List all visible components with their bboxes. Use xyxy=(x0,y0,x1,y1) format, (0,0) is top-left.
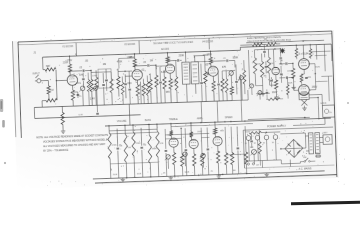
resistor R8 (vertical) xyxy=(109,72,114,105)
resistor R45 xyxy=(243,124,248,174)
interstage transformer T1 primary box xyxy=(182,62,190,84)
capacitor C24 (vertical) xyxy=(159,67,163,103)
V8 plate resistor R36 xyxy=(169,124,173,139)
B plus feed line xyxy=(247,99,310,119)
electrolytic capacitor C19 xyxy=(262,132,269,160)
label V1 ECC83 xyxy=(62,46,74,48)
title block subtext xyxy=(254,44,263,46)
label 0.05 C2 xyxy=(79,67,83,69)
extra junction dots upper xyxy=(69,51,212,74)
label .05 lower2 xyxy=(163,172,167,174)
HT dropper resistor R26 (horizontal) xyxy=(266,42,276,46)
resistor R53 lower xyxy=(258,130,262,166)
junction dot left bus xyxy=(62,117,63,118)
electrolytic capacitor C18 xyxy=(253,133,260,161)
svg-text:1.5K: 1.5K xyxy=(171,81,176,83)
junction dots out region xyxy=(280,44,313,78)
speed pot VR7 xyxy=(250,149,257,173)
svg-text:A.C. MAINS: A.C. MAINS xyxy=(299,167,312,170)
coupling capacitor C6 xyxy=(168,59,182,62)
ground symbol lower 3 xyxy=(217,174,222,178)
phase splitter triode V5 xyxy=(272,67,280,75)
wire phase mid xyxy=(256,92,270,94)
ground symbol below R30 xyxy=(61,131,65,134)
resistor R23 (vertical) xyxy=(260,53,265,89)
capacitor C21 (vertical) xyxy=(82,73,85,88)
label 470K phase xyxy=(256,64,262,66)
grid resistor R3 (vertical) xyxy=(44,80,51,100)
junction dots lower bus 2 xyxy=(108,120,246,131)
grid wire V2 xyxy=(125,75,132,77)
resistor R13 xyxy=(142,79,146,104)
mains transformer T3 primary xyxy=(308,133,313,154)
bias resistor R52 xyxy=(286,78,289,99)
V7 grid wire xyxy=(293,77,298,90)
HT feed drop 1 xyxy=(75,43,77,56)
value label .05 at 186 xyxy=(205,64,209,66)
V10 cathode resistor R40 xyxy=(216,146,220,175)
cathode bypass capacitor C1 xyxy=(73,92,80,104)
ground symbol lower 2 xyxy=(169,176,174,180)
svg-text:47K: 47K xyxy=(79,75,84,77)
resistor R44 xyxy=(229,125,234,175)
junction dots output extra xyxy=(274,47,319,119)
resistor R42 xyxy=(199,126,204,176)
value label 820 at 108 xyxy=(128,83,133,85)
label 100K lower xyxy=(137,173,142,175)
label ECC83 V3 xyxy=(161,48,169,51)
label row BASS xyxy=(145,119,152,122)
capacitor C32 out xyxy=(266,89,269,99)
label 240V xyxy=(322,132,328,134)
label AC MAINS xyxy=(299,167,312,170)
title block text row 2 xyxy=(247,39,292,43)
title text left chunk xyxy=(17,41,19,43)
voltage callout 210V xyxy=(272,92,278,94)
wire stub output 1 xyxy=(308,64,315,74)
svg-text:ECC83: ECC83 xyxy=(161,48,169,51)
label .1 cap b xyxy=(281,75,284,77)
tone pot VR4 xyxy=(165,155,171,169)
label MAINS SUPPLY UNIT xyxy=(267,125,286,129)
input jack J1 xyxy=(35,75,44,83)
mains plug PL1 xyxy=(319,135,332,145)
wire can bus stub xyxy=(261,161,263,168)
ground bus left extension xyxy=(33,107,35,118)
label FS1 xyxy=(315,153,320,155)
label 6.3V xyxy=(180,159,185,161)
schematic sheet border (left edge) xyxy=(12,41,21,138)
label 100K out xyxy=(288,82,294,84)
voltage callout 96V xyxy=(166,92,171,94)
svg-text:6.3V: 6.3V xyxy=(180,159,185,161)
lower band ground bus xyxy=(93,171,325,179)
plate resistor R19 of V4 xyxy=(209,51,213,66)
svg-text:100K: 100K xyxy=(137,173,142,175)
value label 47K at 60 xyxy=(79,75,84,77)
voltage callout 250V xyxy=(312,87,318,89)
lower mid bus wire 2 xyxy=(165,133,209,135)
value label .02 at 122 xyxy=(141,70,145,72)
capacitor C27 (vertical) xyxy=(235,64,239,94)
HT feed drop 3 xyxy=(208,38,210,49)
capacitor C30 lower xyxy=(250,134,253,148)
note text line 3 xyxy=(43,143,106,148)
bridge AC input wire xyxy=(280,143,285,160)
output transformer T2 box xyxy=(299,93,309,100)
ground bus (upper band) xyxy=(34,101,232,108)
value label .05 at 66 xyxy=(85,61,89,63)
ground stub R23 xyxy=(261,89,266,96)
resistor R43 xyxy=(223,125,228,175)
note text line 1 xyxy=(36,134,108,140)
label 1M phase xyxy=(263,75,266,77)
label V9 xyxy=(189,135,193,137)
svg-text:470K: 470K xyxy=(112,145,118,147)
value label 220K at 160 xyxy=(179,55,185,57)
cathode resistor R11 of V2 xyxy=(136,80,140,104)
svg-text:AMPL: AMPL xyxy=(197,117,204,120)
label 100K V4 xyxy=(203,55,209,57)
svg-text:200V: 200V xyxy=(197,131,203,133)
hum balance coil L2 xyxy=(266,98,283,101)
label 25uF lower xyxy=(211,171,214,173)
value label 2M at 84 xyxy=(103,64,106,66)
junction dots ground bus xyxy=(126,173,247,179)
inter-band drop wire a xyxy=(200,102,203,123)
smoothing cap C8 on dropper xyxy=(263,44,266,57)
value label 47K at 203 xyxy=(222,67,227,69)
heater tap stub xyxy=(78,105,99,116)
cathode resistor R5 of V1 xyxy=(71,85,75,106)
value label 1M at 131 xyxy=(150,60,153,62)
resistor R51 (vertical) xyxy=(242,60,246,94)
HT feed drop 2 xyxy=(138,41,140,54)
title text TRU-VOICE AMPLIFIER xyxy=(153,41,194,45)
wire right border runs xyxy=(311,51,331,56)
speaker connection box xyxy=(322,105,334,117)
wire run y26 xyxy=(195,60,209,62)
T2 centre tap ground xyxy=(302,105,307,110)
junction dots lower bus xyxy=(124,121,231,126)
svg-text:68K: 68K xyxy=(46,65,51,68)
capacitor C15 xyxy=(206,127,210,175)
label SPEAKER xyxy=(320,103,326,105)
wires T2 to speaker xyxy=(309,94,327,120)
grid stopper resistor R1 (horizontal) xyxy=(45,68,56,72)
label 47K out xyxy=(307,77,311,79)
svg-text:2M: 2M xyxy=(103,64,106,66)
voltage label 310V xyxy=(245,131,251,133)
svg-text:1M: 1M xyxy=(233,170,236,172)
resistor R31 xyxy=(107,126,118,179)
lower band bus second line xyxy=(171,124,253,127)
svg-text:250K: 250K xyxy=(113,174,118,176)
label 250V out xyxy=(315,66,321,68)
V9 cathode resistor R38 xyxy=(192,149,196,176)
svg-text:96V: 96V xyxy=(166,92,171,94)
value label 470K at 98 xyxy=(117,61,123,63)
svg-text:47K: 47K xyxy=(222,67,227,69)
note text line 4 xyxy=(43,149,69,153)
label row AMPL xyxy=(197,117,204,120)
pot VR2 tone xyxy=(228,71,235,101)
scan grit along borders xyxy=(42,31,316,187)
HT dropper resistor R25 (horizontal) xyxy=(252,43,262,47)
label 220K R4 xyxy=(63,61,69,64)
label row PRESENCE xyxy=(225,117,233,119)
screen resistor R55 xyxy=(309,45,312,59)
svg-text:220K: 220K xyxy=(179,55,185,57)
grid leak resistor R2 (horizontal) xyxy=(46,99,57,103)
resistor R7 (vertical) xyxy=(94,70,99,105)
schematic sheet border (top edge) xyxy=(18,31,332,45)
label .1 cap xyxy=(281,60,284,62)
coupling capacitor C2 xyxy=(70,69,91,72)
label V3 xyxy=(165,43,169,45)
shield box around tone network xyxy=(98,69,112,88)
cathode resistor R20 of V4 xyxy=(212,76,216,101)
speck right margin xyxy=(17,41,19,43)
label SW1 xyxy=(303,157,306,159)
wire stub x230 xyxy=(248,50,249,86)
svg-text:V2 ECC83: V2 ECC83 xyxy=(124,44,136,46)
svg-text:TREBLE: TREBLE xyxy=(169,119,178,121)
interstage transformer T1 secondary box xyxy=(191,62,199,84)
label 470K xyxy=(92,75,98,77)
svg-text:170V: 170V xyxy=(67,60,73,62)
wire output grids xyxy=(293,63,298,68)
electrolytic capacitor C20 xyxy=(271,132,278,160)
svg-text:VOL: VOL xyxy=(76,83,81,85)
triode V10 xyxy=(213,136,223,146)
electrolytic capacitor C17 xyxy=(244,133,251,161)
voltage callout 180V xyxy=(207,54,213,56)
scan artifact dark rule bottom-right xyxy=(291,201,360,205)
wire run y31b xyxy=(83,60,182,70)
screen feed wires xyxy=(314,44,325,73)
scan speck left edge 3 xyxy=(4,162,6,164)
svg-text:SPKR: SPKR xyxy=(320,103,326,105)
scan paper noise speckle xyxy=(20,31,346,185)
title block text row 1 xyxy=(247,36,281,40)
grid resistor R12 xyxy=(154,65,159,103)
plate resistor R16 of V3 xyxy=(166,53,170,65)
PSU box bottom wire xyxy=(245,165,335,168)
svg-text:470K: 470K xyxy=(92,75,98,77)
svg-text:220K: 220K xyxy=(136,143,142,145)
svg-text:1M: 1M xyxy=(150,60,153,62)
PSU lower wires xyxy=(281,159,304,167)
capacitor C22 (vertical) xyxy=(105,69,108,91)
wire near right border 1 xyxy=(321,75,332,77)
note text line 2 xyxy=(43,139,108,144)
title block rule xyxy=(246,40,324,43)
label .02 xyxy=(105,80,109,82)
svg-text:250V: 250V xyxy=(315,66,321,68)
grid resistor R6 (vertical) xyxy=(89,70,94,105)
wire R1 to rail xyxy=(43,57,45,70)
capacitor C33 xyxy=(280,66,283,83)
resistor R48 (vertical) xyxy=(146,75,150,103)
label HT xyxy=(256,165,260,167)
wire run y33 xyxy=(118,70,132,72)
label input xyxy=(33,72,41,75)
wire dropper chain xyxy=(240,44,280,45)
svg-text:500K: 500K xyxy=(185,172,190,174)
capacitor C11 xyxy=(116,128,124,178)
wire V7 bottom to gnd xyxy=(294,90,304,96)
capacitor C13 xyxy=(164,129,168,177)
capacitor C26 (vertical) xyxy=(217,71,221,101)
label 1M xyxy=(50,89,53,92)
svg-text:INPUT: INPUT xyxy=(33,72,41,75)
capacitor C3 (vertical) xyxy=(102,73,106,105)
scan grit lower band xyxy=(106,119,324,178)
label SPEED VR7 xyxy=(250,147,254,149)
plate resistor R4 of V1 xyxy=(68,56,72,75)
wire stub x121 xyxy=(139,82,142,104)
HT supply rail (upper band) xyxy=(43,50,241,57)
resistor R34 xyxy=(147,124,158,177)
ground symbol lower 1 xyxy=(121,178,126,182)
resistor R15 xyxy=(162,70,167,103)
resistor R49 (vertical) xyxy=(174,60,178,102)
triode V3 xyxy=(165,64,175,74)
label V5 ECC83 xyxy=(264,39,268,41)
label 200V lower xyxy=(197,131,203,133)
triode V4 xyxy=(208,66,218,76)
svg-text:470K: 470K xyxy=(117,61,123,63)
wire upper mid 1 xyxy=(91,71,111,74)
schematic page (rotated scan) xyxy=(12,30,339,189)
label 220K out xyxy=(287,70,293,72)
output pentode V6 xyxy=(298,58,309,69)
svg-text:V4 ECC83: V4 ECC83 xyxy=(202,41,214,43)
plate resistor R10 of V2 xyxy=(133,54,137,70)
pot VR3 xyxy=(238,76,244,101)
wire choke to caps xyxy=(261,131,280,133)
svg-text:310V: 310V xyxy=(245,131,251,133)
value label 1.5K at 152 xyxy=(171,81,176,83)
label V4 ECC83 xyxy=(202,41,214,43)
svg-text:6.8K: 6.8K xyxy=(161,72,166,74)
negative feedback line xyxy=(293,117,325,125)
label .05 lower xyxy=(119,144,123,146)
capacitor C29 xyxy=(270,77,273,87)
V8 cathode resistor R37 xyxy=(172,147,176,176)
fuse FS1 xyxy=(315,155,321,157)
resistor R14 xyxy=(148,73,152,103)
schematic sheet border (bottom edge) xyxy=(95,175,337,183)
label 500K lower xyxy=(185,172,190,174)
schematic sheet border (right edge) xyxy=(332,31,337,177)
tremolo triode V9 xyxy=(189,139,199,149)
svg-text:180V: 180V xyxy=(207,54,213,56)
resistor R46 (vertical) xyxy=(87,73,91,106)
pot VR8 bias xyxy=(257,91,263,100)
triode V1 xyxy=(67,75,78,86)
tone pot VR5 xyxy=(182,152,188,166)
wire run y52r xyxy=(256,84,276,87)
terminal TB1 xyxy=(247,163,254,165)
svg-text:SW: SW xyxy=(303,157,306,159)
wire run lower y120 xyxy=(226,153,246,156)
svg-text:100K: 100K xyxy=(288,82,294,84)
svg-text:210V: 210V xyxy=(272,92,278,94)
label 22K phase xyxy=(270,63,274,65)
svg-text:6.3V: 6.3V xyxy=(79,114,84,116)
scan grit upper band xyxy=(41,45,320,105)
svg-text:470K: 470K xyxy=(256,64,262,66)
capacitor C23 (vertical) xyxy=(128,71,132,104)
ground stub V5 cathode xyxy=(274,95,279,100)
label V8 ECC82 xyxy=(167,135,171,137)
wire run lower y125 xyxy=(110,162,158,164)
wire input node vertical xyxy=(56,70,57,100)
label 25uF xyxy=(79,96,82,98)
wire upper to lower band xyxy=(128,104,131,125)
capacitor C16 xyxy=(236,126,240,174)
label 68K xyxy=(46,65,51,68)
value label 3 at 175 xyxy=(194,57,196,59)
wire run lower y102 xyxy=(165,137,209,139)
pot VR10 xyxy=(248,84,254,94)
T3 secondary leads xyxy=(305,136,309,151)
section boundary wire x221 xyxy=(240,74,242,121)
svg-text:47K: 47K xyxy=(160,143,165,145)
ground bus stub right xyxy=(232,90,248,101)
resistor R18 right of T1 xyxy=(203,55,208,101)
smoothing choke L1 (horizontal) xyxy=(243,131,261,134)
label V10 xyxy=(212,133,217,135)
resistor R50 (vertical) xyxy=(225,71,229,101)
svg-text:1M: 1M xyxy=(128,147,131,149)
PSU negative bus xyxy=(244,160,281,161)
value label 500K at 214 xyxy=(233,57,239,59)
label .02 lower xyxy=(143,144,147,146)
scanned page area tint xyxy=(12,30,339,189)
label row TREBLE xyxy=(169,119,178,121)
capacitor C31 phase xyxy=(279,49,282,64)
resistor R41 xyxy=(179,126,184,176)
T1 top leads xyxy=(185,51,204,62)
svg-text:240V: 240V xyxy=(322,132,328,134)
coupling capacitor C5 xyxy=(134,64,156,67)
svg-text:1.4V: 1.4V xyxy=(90,98,95,100)
capacitor C14 xyxy=(184,128,188,176)
label 98V lower xyxy=(220,130,224,132)
HT supply rail (output section) xyxy=(240,44,332,64)
oscillator triode V8 xyxy=(169,138,179,148)
capacitor C28 xyxy=(265,61,268,73)
capacitor C25 (vertical) xyxy=(200,64,204,102)
label row VOLUME xyxy=(117,121,127,123)
label 250K pot xyxy=(113,174,118,176)
wire y16 phase run xyxy=(254,48,280,51)
wire run y29 xyxy=(156,65,168,67)
resistor R21 xyxy=(220,71,224,101)
wire R2 to ground bus xyxy=(42,101,46,108)
junction dot output xyxy=(302,40,316,75)
junction dot V1 plate xyxy=(69,70,70,71)
label 1M lower xyxy=(233,170,236,172)
tone pot VR6 xyxy=(200,153,206,167)
resistor R33 xyxy=(131,125,142,178)
rectifier bridge MR1 xyxy=(285,139,304,158)
wire V5 plate xyxy=(272,49,275,67)
wire to V1 grid xyxy=(56,80,68,82)
